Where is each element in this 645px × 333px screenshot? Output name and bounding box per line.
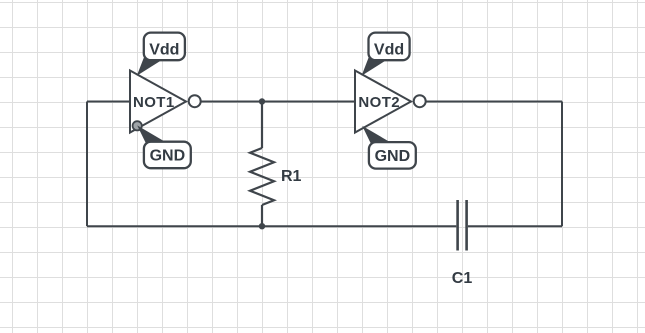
- ground label GND (NOT2): [362, 126, 416, 169]
- inverter NOT1: [130, 71, 201, 133]
- svg-text:NOT1: NOT1: [133, 94, 175, 111]
- wire left vertical (feedback left side): [86, 102, 88, 227]
- capacitor C1: [452, 200, 473, 287]
- junction node bottom (R1/C1): [259, 223, 265, 229]
- wire right vertical: [561, 102, 563, 227]
- svg-text:GND: GND: [375, 148, 411, 165]
- svg-text:NOT2: NOT2: [358, 94, 400, 111]
- wire top-left to NOT1 input: [87, 101, 130, 103]
- wire R1 top lead: [261, 102, 263, 149]
- power label Vdd (NOT1): [137, 33, 185, 76]
- svg-text:GND: GND: [150, 148, 186, 165]
- wire bottom right to capacitor right plate: [468, 225, 562, 227]
- wire NOT2 output to right corner: [426, 101, 563, 103]
- svg-text:Vdd: Vdd: [149, 41, 179, 58]
- wire capacitor left plate to bottom junction and left side: [87, 225, 456, 227]
- wire R1 bottom lead: [261, 205, 263, 226]
- power label Vdd (NOT2): [362, 33, 410, 76]
- svg-text:R1: R1: [281, 168, 302, 185]
- pin dot GND (NOT1): [133, 121, 142, 130]
- svg-text:C1: C1: [452, 270, 473, 287]
- resistor R1: [250, 148, 302, 205]
- junction node top (R1/NOT2 input): [259, 98, 265, 104]
- ground label GND (NOT1): [137, 125, 191, 168]
- svg-text:Vdd: Vdd: [374, 41, 404, 58]
- inverter NOT2: [355, 71, 426, 133]
- wire NOT1 output to NOT2 input: [201, 101, 356, 103]
